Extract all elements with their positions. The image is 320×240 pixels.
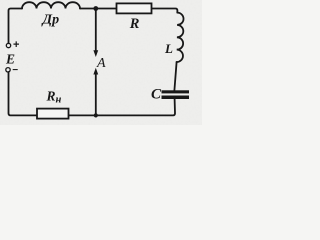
svg-text:Др: Др bbox=[41, 13, 60, 28]
terminal circle + (positive) bbox=[6, 43, 10, 47]
wire: right branch between L coil and capacitor bbox=[174, 62, 176, 90]
wire: bottom wire from Rн to bottom-right corner bbox=[69, 99, 176, 115]
wire: top wire from choke to resistor R bbox=[80, 8, 116, 10]
paper background bbox=[0, 0, 202, 125]
svg-text:R: R bbox=[129, 16, 140, 32]
arrowhead of upper arrow (pointing down) at arc gap bbox=[93, 50, 98, 57]
svg-text:−: − bbox=[12, 65, 18, 76]
wire: middle branch lower shaft bbox=[95, 75, 97, 116]
arrowhead of lower arrow (pointing up) at arc gap bbox=[93, 68, 98, 75]
capacitor C bottom plate bbox=[162, 96, 190, 100]
svg-text:+: + bbox=[13, 39, 19, 51]
svg-text:L: L bbox=[164, 41, 173, 56]
wire: middle branch upper shaft bbox=[95, 9, 97, 51]
junction dot at bottom of middle branch bbox=[94, 113, 98, 117]
svg-text:А: А bbox=[96, 56, 106, 71]
resistor Rн body bbox=[37, 109, 69, 119]
inductor Др (choke) arcs bbox=[22, 2, 80, 8]
wire: top wire from resistor R to top-right corner bbox=[152, 9, 178, 13]
terminal circle − (negative) bbox=[6, 68, 10, 72]
capacitor C top plate bbox=[162, 90, 190, 93]
inductor L coil arcs bbox=[177, 13, 184, 62]
wire: left wire lower segment to bottom-left corner bbox=[9, 72, 38, 115]
wire: left wire upper segment with top-left corner bbox=[9, 9, 23, 44]
junction dot at top of middle branch bbox=[93, 6, 98, 11]
resistor R body bbox=[117, 3, 152, 13]
svg-text:C: C bbox=[151, 86, 162, 102]
